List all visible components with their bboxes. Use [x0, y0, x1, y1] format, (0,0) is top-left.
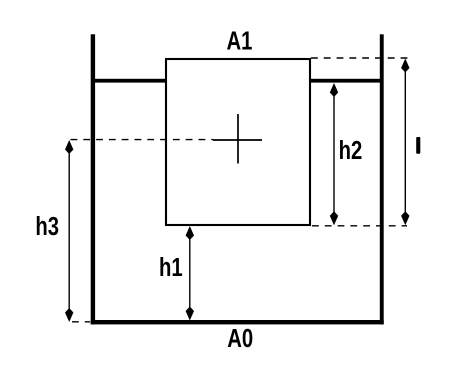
dashed line at block centre level	[71, 139, 214, 141]
container right wall	[380, 34, 384, 324]
svg-text:h2: h2	[339, 135, 363, 164]
svg-text:h1: h1	[159, 253, 183, 282]
dimension arrow h3	[65, 140, 73, 322]
floating block A1	[166, 59, 310, 225]
dashed line at block top level	[311, 57, 410, 59]
svg-text:A1: A1	[227, 26, 253, 55]
container bottom A0 line	[91, 320, 384, 324]
dimension arrow h2	[330, 83, 338, 225]
dashed line at container bottom level	[72, 321, 90, 323]
center cross vertical	[237, 114, 239, 164]
svg-text:A0: A0	[227, 323, 253, 352]
dimension arrow l	[401, 59, 409, 226]
label l	[416, 137, 420, 154]
svg-text:h3: h3	[35, 211, 59, 240]
dashed line at block bottom level	[312, 225, 407, 227]
water surface line right	[309, 79, 382, 83]
dimension arrow h1	[186, 226, 194, 321]
container left wall	[91, 34, 95, 324]
center cross horizontal	[213, 139, 262, 141]
water surface line left	[93, 79, 167, 83]
